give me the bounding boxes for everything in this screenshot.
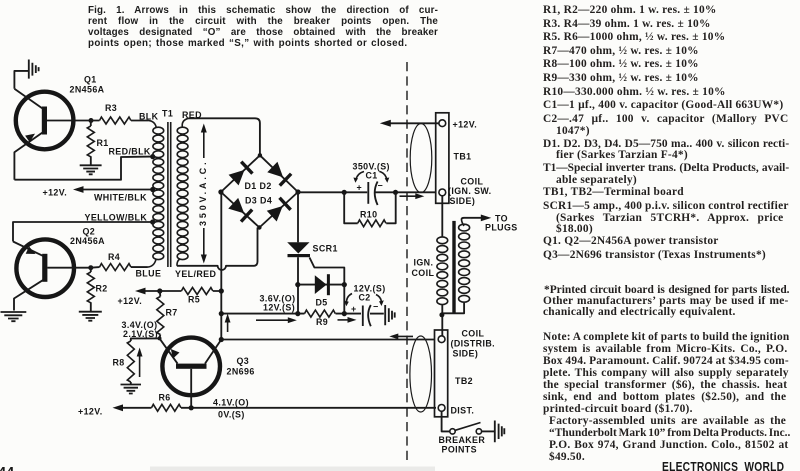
svg-text:R3: R3 bbox=[105, 103, 117, 113]
wire TB1 to ign coil bbox=[441, 196, 443, 237]
wire +12V arrow to WHITE/BLK tap bbox=[73, 186, 151, 193]
arrow current (collector row, near dashed line) bbox=[389, 334, 413, 340]
label 350V.A.C. bbox=[198, 162, 208, 226]
resistor R2 bbox=[87, 268, 107, 311]
svg-text:SIDE): SIDE) bbox=[453, 349, 479, 359]
label +12V (TB1) bbox=[453, 120, 478, 130]
node tap RED/BLK bbox=[150, 154, 155, 159]
svg-text:Q3: Q3 bbox=[237, 356, 250, 366]
svg-text:YEL/RED: YEL/RED bbox=[175, 269, 216, 279]
ground (below R1) bbox=[80, 165, 102, 174]
label YEL/RED bbox=[175, 269, 216, 279]
wire +12V feed arrow (top row) bbox=[380, 120, 439, 127]
label RED/BLK bbox=[109, 147, 151, 157]
svg-text:D3 D4: D3 D4 bbox=[245, 196, 272, 206]
svg-text:R1: R1 bbox=[97, 138, 109, 148]
label +12V (white/blk row) bbox=[43, 188, 68, 198]
wire RED/BLK run bbox=[14, 157, 150, 180]
svg-text:T1: T1 bbox=[162, 109, 173, 119]
svg-text:POINTS: POINTS bbox=[442, 445, 477, 455]
svg-text:R5: R5 bbox=[188, 295, 200, 305]
arrow current (under TB1 wire) bbox=[400, 193, 425, 199]
label TO PLUGS bbox=[485, 214, 518, 233]
transformer T1 secondary winding bbox=[177, 118, 189, 265]
wire D5 right down bbox=[343, 285, 345, 314]
bridge nodes bbox=[218, 153, 300, 230]
resistor R4 bbox=[91, 252, 148, 271]
svg-text:TB1: TB1 bbox=[454, 152, 472, 162]
svg-text:Q2: Q2 bbox=[83, 227, 96, 237]
wire collector row to TB2 bbox=[221, 339, 434, 341]
arrow current R9 left bbox=[256, 317, 297, 323]
label YELLOW/BLK bbox=[85, 213, 148, 223]
page number bbox=[0, 465, 14, 471]
label COIL (DISTRIB. SIDE) bbox=[451, 329, 496, 359]
label TB1 bbox=[454, 152, 472, 162]
SCR1 bbox=[287, 192, 338, 257]
label Q3 bbox=[227, 356, 255, 377]
diode D2 bbox=[267, 161, 293, 187]
svg-text:WHITE/BLK: WHITE/BLK bbox=[94, 193, 147, 203]
node C1 left / right bbox=[342, 190, 399, 195]
svg-text:12V.(S): 12V.(S) bbox=[263, 303, 295, 313]
svg-text:2N696: 2N696 bbox=[227, 367, 255, 377]
svg-text:−: − bbox=[373, 302, 379, 312]
breaker points bbox=[442, 411, 494, 434]
capacitor C1 bbox=[353, 162, 390, 206]
svg-text:SCR1: SCR1 bbox=[313, 244, 338, 254]
svg-text:R4: R4 bbox=[108, 252, 120, 262]
svg-text:PLUGS: PLUGS bbox=[485, 223, 518, 233]
resistor R5 bbox=[181, 288, 212, 305]
wire R8 branch bbox=[131, 338, 160, 341]
svg-text:+12V.: +12V. bbox=[43, 188, 68, 198]
node base Q1 bbox=[89, 118, 94, 123]
terminal board TB1 bbox=[436, 113, 449, 204]
arrow current up (R8) bbox=[137, 348, 143, 378]
labels D1 D2 / D3 D4 bbox=[245, 181, 273, 206]
ground (below R8) bbox=[121, 385, 142, 394]
resistor R3 bbox=[91, 103, 149, 124]
wire R5 row with left arrow bbox=[135, 288, 221, 295]
svg-text:+12V.: +12V. bbox=[118, 296, 143, 306]
svg-text:+: + bbox=[357, 183, 363, 193]
label Q1 bbox=[70, 75, 105, 95]
wire YELLOW/BLK run bbox=[13, 222, 151, 242]
footer magazine name bbox=[662, 460, 784, 471]
svg-text:COIL: COIL bbox=[412, 268, 435, 278]
svg-text:BLUE: BLUE bbox=[136, 269, 162, 279]
diode D4 bbox=[266, 197, 292, 223]
label 4.1V.(O) 0V.(S) bbox=[213, 398, 249, 420]
svg-text:COIL: COIL bbox=[461, 177, 484, 187]
svg-text:R10: R10 bbox=[360, 210, 377, 220]
ground (Q2 collector) bbox=[1, 312, 27, 321]
resistor R6 bbox=[152, 393, 181, 412]
node R9 left / right bbox=[219, 311, 347, 316]
transformer T1 core bbox=[168, 122, 171, 267]
node Q3 base on rail bbox=[189, 405, 194, 410]
label COIL (IGN. SW. SIDE) bbox=[448, 177, 492, 206]
ground (below R2) bbox=[79, 312, 102, 321]
wire SCR gate bbox=[310, 258, 345, 285]
svg-text:(DISTRIB.: (DISTRIB. bbox=[451, 339, 496, 349]
transistor Q1 bbox=[14, 89, 91, 180]
dashed chassis line bbox=[406, 62, 408, 461]
transistor Q2 bbox=[13, 239, 91, 310]
label 3.6V.(O) 12V.(S) bbox=[260, 294, 296, 313]
svg-text:YELLOW/BLK: YELLOW/BLK bbox=[85, 213, 148, 223]
label TB2 bbox=[455, 376, 473, 386]
svg-text:C2: C2 bbox=[359, 293, 371, 303]
ground (right of C2) bbox=[385, 305, 395, 325]
svg-text:R7: R7 bbox=[166, 308, 178, 318]
svg-text:4.1V.(O): 4.1V.(O) bbox=[213, 398, 249, 408]
arrow current up (left rail) bbox=[225, 314, 231, 333]
svg-text:(IGN. SW.: (IGN. SW. bbox=[448, 186, 492, 196]
ground (Q1 collector, top left) bbox=[14, 60, 38, 89]
node tap YELLOW/BLK bbox=[150, 219, 155, 224]
terminal board TB2 bbox=[435, 330, 448, 417]
label BLUE bbox=[136, 269, 162, 279]
label RED bbox=[182, 110, 202, 120]
svg-text:0V.(S): 0V.(S) bbox=[218, 410, 245, 420]
svg-text:R8: R8 bbox=[113, 358, 125, 368]
figure caption bbox=[88, 5, 438, 16]
svg-text:IGN.: IGN. bbox=[414, 258, 434, 268]
ignition coil primary bbox=[437, 237, 448, 336]
label +12V (R5 row) bbox=[118, 296, 143, 306]
ignition coil core bbox=[452, 221, 455, 314]
arrow 350 V.A.C. bbox=[201, 124, 207, 264]
parts list column bbox=[543, 4, 717, 16]
label 3.4V.(O) 2.1V.(S) bbox=[122, 320, 158, 339]
svg-text:RED/BLK: RED/BLK bbox=[109, 147, 151, 157]
node R5 row bbox=[157, 288, 224, 293]
label BREAKER POINTS bbox=[439, 435, 486, 455]
wire RED top run to bridge bbox=[189, 118, 260, 155]
diode D1 bbox=[228, 160, 254, 186]
cable loop ellipse TB1 bbox=[410, 124, 432, 193]
ignition coil secondary bbox=[443, 220, 470, 314]
node coil common bbox=[439, 312, 444, 317]
node D5 left / right bbox=[295, 282, 347, 287]
svg-text:R9: R9 bbox=[316, 317, 328, 327]
svg-text:2N456A: 2N456A bbox=[70, 236, 105, 246]
wire YEL/RED bottom run with hop bbox=[177, 228, 258, 271]
ground (breaker points) bbox=[495, 421, 505, 443]
svg-text:C1: C1 bbox=[366, 171, 378, 181]
diode D5 bbox=[298, 274, 345, 307]
cable loop ellipse TB2 bbox=[410, 336, 432, 412]
transistor Q3 bbox=[160, 338, 222, 408]
svg-text:+12V.: +12V. bbox=[453, 120, 478, 130]
svg-text:BLK: BLK bbox=[139, 112, 159, 122]
label DIST. bbox=[451, 406, 475, 416]
svg-text:COIL: COIL bbox=[462, 329, 485, 339]
node R7 bottom bbox=[158, 336, 162, 340]
svg-text:D5: D5 bbox=[316, 298, 328, 308]
svg-text:2N456A: 2N456A bbox=[70, 85, 105, 95]
node tap WHITE/BLK bbox=[150, 187, 155, 192]
resistor R8 bbox=[113, 341, 135, 384]
resistor R9 bbox=[305, 310, 336, 327]
svg-text:Q1: Q1 bbox=[84, 75, 97, 85]
svg-text:+: + bbox=[351, 304, 357, 314]
svg-text:−: − bbox=[378, 181, 384, 191]
svg-text:TB2: TB2 bbox=[455, 376, 473, 386]
resistor R7 bbox=[157, 291, 178, 338]
svg-text:DIST.: DIST. bbox=[451, 406, 475, 416]
label +12V (bottom rail) bbox=[78, 407, 103, 417]
svg-text:R2: R2 bbox=[96, 284, 108, 294]
wire R9 row bbox=[221, 313, 361, 315]
svg-text:R6: R6 bbox=[159, 393, 171, 403]
node Q3 collector bbox=[219, 337, 224, 342]
wire SCR cathode down bbox=[297, 257, 299, 313]
wire bottom rail bbox=[113, 404, 437, 411]
svg-text:D1 D2: D1 D2 bbox=[245, 181, 272, 191]
bridge rectifier frame bbox=[221, 155, 298, 227]
label Q2 bbox=[70, 227, 105, 247]
svg-text:350V.A.C.: 350V.A.C. bbox=[198, 162, 208, 226]
svg-text:BREAKER: BREAKER bbox=[439, 435, 486, 445]
arrow current R9 right bbox=[338, 317, 357, 323]
wire C1 output row bbox=[298, 191, 436, 193]
capacitor C2 bbox=[344, 284, 386, 327]
resistor R1 bbox=[87, 121, 108, 165]
wire TO PLUGS arrow bbox=[462, 215, 492, 222]
label IGN. COIL bbox=[412, 258, 435, 279]
label T1 bbox=[162, 109, 173, 119]
label BLK bbox=[139, 112, 159, 122]
svg-text:+12V.: +12V. bbox=[78, 407, 103, 417]
svg-text:SIDE): SIDE) bbox=[450, 196, 476, 206]
label WHITE/BLK bbox=[94, 193, 147, 203]
transformer T1 primary winding bbox=[148, 121, 164, 268]
node base Q2 bbox=[88, 265, 93, 270]
scan smudge bottom edge bbox=[150, 467, 435, 471]
resistor R10 bbox=[344, 192, 396, 226]
diode D3 bbox=[228, 197, 254, 223]
wire bridge left node down bbox=[220, 192, 222, 340]
